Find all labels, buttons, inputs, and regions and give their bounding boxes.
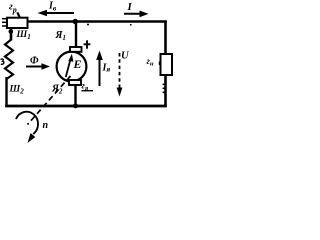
arrow Iv (field current, pointing left) bbox=[44, 12, 74, 14]
plus sign bbox=[84, 43, 91, 45]
node junction top (to armature) bbox=[73, 19, 78, 24]
wire left side lower bbox=[5, 77, 7, 107]
brush bottom bbox=[69, 80, 81, 85]
wire top rail bbox=[26, 20, 167, 23]
svg-text:I: I bbox=[127, 1, 133, 13]
rotation arrow n bbox=[16, 112, 38, 134]
arrow I (load current, pointing right) bbox=[124, 13, 141, 15]
speck on top wire right bbox=[130, 24, 132, 26]
wire zigzag to rheostat bbox=[10, 27, 13, 41]
wire bottom brush to rail bbox=[74, 84, 76, 106]
rheostat left end ticks bbox=[2, 18, 7, 20]
emf arrow inside machine bbox=[66, 58, 71, 77]
arrow F (flux, pointing right) bbox=[26, 66, 43, 68]
rheostat rp box bbox=[7, 18, 28, 28]
load resistor r_n box bbox=[161, 54, 173, 75]
rheostat wiper tick bbox=[17, 12, 20, 17]
arrow I_ya (armature current, up) bbox=[99, 58, 101, 86]
arrow U (terminal voltage, dashed, down) bbox=[119, 53, 121, 88]
shaft dashed line bbox=[28, 76, 71, 125]
wire nubs below load resistor bbox=[163, 84, 165, 86]
svg-text:n: n bbox=[43, 120, 49, 131]
svg-text:E: E bbox=[73, 57, 82, 71]
svg-text:Iя: Iя bbox=[102, 63, 111, 74]
speck on top wire bbox=[87, 24, 89, 26]
brush top bbox=[70, 47, 82, 52]
wire right side bbox=[164, 21, 167, 107]
label r (left edge, clipped) bbox=[1, 59, 4, 64]
wire bottom rail bbox=[5, 105, 167, 108]
wire junction to top brush bbox=[75, 22, 77, 48]
junction dot on left stub bbox=[9, 29, 14, 34]
svg-text:Ф: Ф bbox=[30, 56, 39, 67]
node junction bottom bbox=[73, 103, 78, 108]
machine armature circle bbox=[57, 52, 87, 82]
winding Ш (shunt field) zigzag bbox=[5, 40, 13, 80]
